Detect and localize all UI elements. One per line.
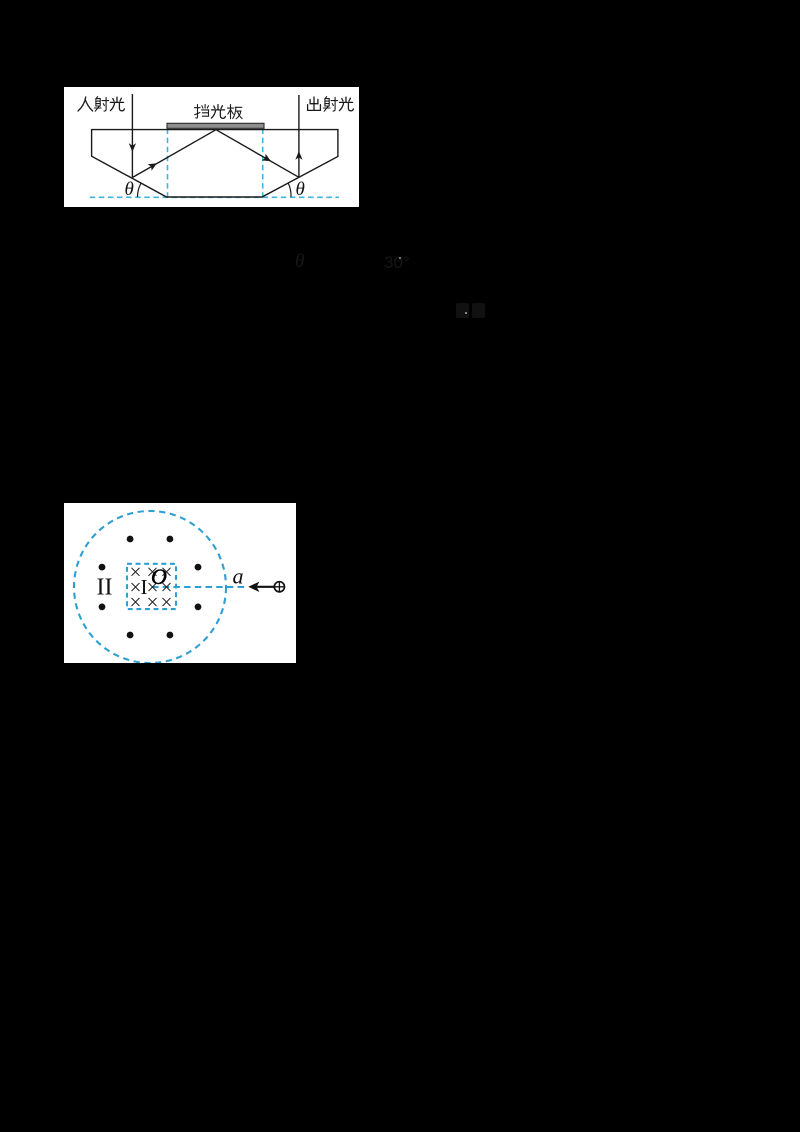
field dots (region II) <box>99 536 202 639</box>
faint cjk marks <box>456 303 469 318</box>
incident ray arrowhead <box>129 143 136 152</box>
dashed vertical line left <box>167 129 169 198</box>
label 入射光 (incident light) <box>78 97 124 112</box>
dashed boundary circle region II <box>74 511 226 663</box>
internal ray right (down-right) <box>216 130 299 178</box>
prism outline <box>92 130 338 197</box>
incident ray vertical <box>131 94 133 178</box>
left angle arc <box>137 183 141 197</box>
right angle arc <box>288 183 291 197</box>
svg-text:II: II <box>97 575 113 601</box>
figure 2 panel (field regions) <box>64 503 296 663</box>
label 挡光板 (baffle) <box>195 105 243 119</box>
svg-text:θ: θ <box>296 179 305 200</box>
figure 1 panel (prism with baffle) <box>64 87 359 207</box>
arrowhead <box>248 582 259 592</box>
label 出射光 (exit light) <box>308 97 354 112</box>
dashed trajectory line <box>152 586 246 588</box>
faint speck <box>399 257 401 259</box>
dashed vertical line right <box>262 129 264 198</box>
velocity arrow <box>257 586 275 588</box>
dashed boundary square region I <box>127 564 176 609</box>
dashed horizontal baseline <box>90 196 339 198</box>
exit ray arrowhead <box>295 151 302 160</box>
field crosses (region I) <box>132 568 170 606</box>
internal ray right arrowhead <box>262 154 271 162</box>
baffle gray bar <box>167 123 264 128</box>
internal ray left arrowhead <box>148 163 157 171</box>
exit ray vertical <box>298 95 300 177</box>
svg-text:θ: θ <box>125 179 134 200</box>
faint speck 2 <box>465 312 467 314</box>
internal ray left (up-right) <box>132 130 216 178</box>
faint theta mark <box>295 251 304 273</box>
faint 30 degrees mark <box>384 253 410 273</box>
svg-text:O: O <box>151 564 167 589</box>
svg-text:a: a <box>233 564 244 589</box>
positive charge symbol <box>274 582 284 592</box>
svg-text:I: I <box>141 575 148 599</box>
